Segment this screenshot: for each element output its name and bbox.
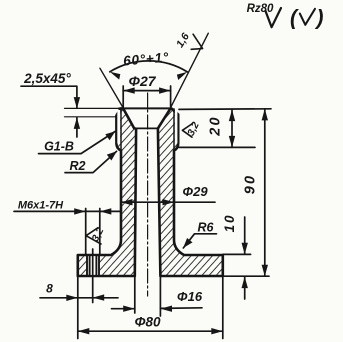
svg-text:Rz80: Rz80: [247, 3, 274, 15]
svg-text:M6x1-7H: M6x1-7H: [18, 200, 64, 212]
svg-text:90: 90: [243, 174, 259, 195]
svg-text:20: 20: [208, 115, 224, 137]
svg-text:Φ80: Φ80: [134, 315, 161, 330]
svg-text:2,5x45°: 2,5x45°: [23, 71, 71, 86]
svg-text:Φ29: Φ29: [182, 184, 208, 199]
svg-text:Φ27: Φ27: [128, 73, 156, 89]
svg-text:G1-B: G1-B: [44, 140, 74, 154]
svg-text:3,2: 3,2: [186, 120, 202, 138]
svg-text:R2: R2: [70, 159, 86, 173]
svg-text:1,6: 1,6: [174, 31, 192, 50]
svg-text:R6: R6: [198, 221, 215, 235]
svg-text:60°+1°: 60°+1°: [123, 50, 170, 69]
svg-text:8: 8: [46, 282, 53, 296]
svg-text:10: 10: [222, 214, 237, 233]
svg-text:(: (: [290, 7, 299, 30]
svg-text:): ): [315, 7, 324, 30]
svg-text:3,2: 3,2: [90, 226, 106, 244]
svg-text:Φ16: Φ16: [177, 289, 203, 304]
